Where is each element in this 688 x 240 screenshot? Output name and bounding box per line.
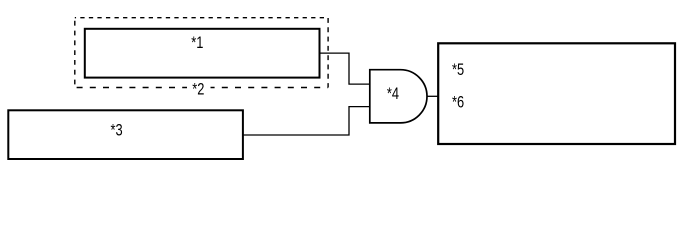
svg-text:*3: *3: [111, 122, 123, 140]
svg-text:*2: *2: [192, 81, 204, 99]
svg-text:*1: *1: [191, 35, 203, 53]
svg-text:*5: *5: [452, 62, 464, 80]
svg-text:*6: *6: [452, 94, 464, 112]
svg-text:*4: *4: [387, 85, 399, 103]
